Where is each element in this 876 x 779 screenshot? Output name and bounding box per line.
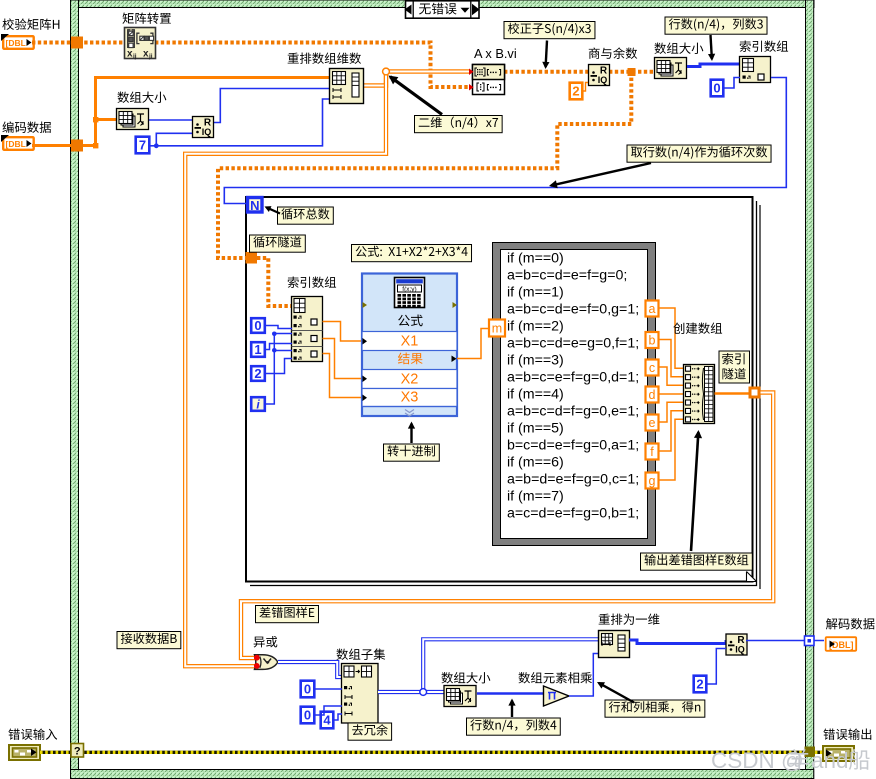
- wire 编码数据 1D to tunnel and up to 数组大小 and 重排数组维数: [32, 78, 330, 147]
- wire quotient3 to 解码数据 out: [746, 640, 824, 642]
- constant 2 (bottom): [694, 676, 707, 693]
- case structure 无错误 - top border: [71, 0, 815, 8]
- label 错误输入: [8, 728, 57, 739]
- tunnel ? error in: [71, 744, 84, 758]
- svg-text:if (m==7): if (m==7): [507, 489, 564, 505]
- constant 0 (top right): [711, 80, 724, 97]
- svg-text:a=c=d=e=f=g=0,b=1;: a=c=d=e=f=g=0,b=1;: [507, 506, 639, 522]
- svg-text:m: m: [492, 322, 502, 336]
- case structure - bottom border: [71, 770, 814, 779]
- junction square on dashed wire: [628, 68, 636, 76]
- label 差错图样E: [256, 606, 319, 623]
- node A x B.vi: [469, 65, 505, 95]
- wire 0 to 索引数组2: [724, 78, 740, 89]
- label 行数(n/4)，列数3: [665, 17, 767, 61]
- wire 数组大小3 to 数组元素相乘: [477, 692, 543, 695]
- wire dashed inside loop to 索引数组: [257, 258, 292, 306]
- formula node frame: [493, 243, 656, 546]
- case structure - right border: [806, 0, 814, 779]
- svg-text:if (m==6): if (m==6): [507, 455, 564, 471]
- svg-text:a=b=c=d=e=f=0,g=1;: a=b=c=d=e=f=0,g=1;: [507, 302, 639, 318]
- wire 数组子集 out 2D blue to junction and 数组大小3 and up to 重排为一维: [378, 639, 598, 695]
- svg-text:[DBL: [DBL: [6, 139, 26, 149]
- svg-text:1: 1: [254, 342, 261, 357]
- svg-text:d: d: [649, 388, 656, 402]
- label 去冗余: [348, 723, 392, 740]
- label 创建数组: [673, 322, 722, 333]
- constant 7: [136, 137, 150, 154]
- label 校正子S(n/4)x3: [504, 22, 595, 70]
- svg-text:b: b: [649, 334, 656, 348]
- junction circle on B wire: [383, 68, 390, 75]
- label 解码数据: [826, 618, 875, 629]
- wire 创建数组 to 索引隧道: [715, 392, 750, 395]
- svg-text:IQ: IQ: [202, 127, 212, 137]
- output tab a on formula frame: [646, 301, 659, 317]
- wire 异或 out 2D blue to 数组子集: [278, 662, 342, 677]
- node 索引数组 2 (Index Array): [740, 57, 771, 83]
- wire 数组大小1 to 商与余数1: [149, 120, 193, 122]
- svg-text:if (m==3): if (m==3): [507, 353, 564, 369]
- label 重排为一维: [599, 614, 660, 625]
- constant 4 (subset): [321, 712, 334, 729]
- label 行数n/4，列数4: [467, 699, 561, 736]
- constant 2 (orange): [570, 83, 588, 100]
- svg-text:e: e: [649, 416, 656, 430]
- terminal N (loop count): [248, 198, 263, 214]
- label 校验矩阵H: [2, 18, 59, 30]
- label 索引隧道: [719, 351, 750, 383]
- wires 索引数组 outputs to 公式 inputs: [323, 322, 363, 398]
- watermark CSDN: [711, 748, 870, 773]
- label 输出差错图样E数组: [641, 430, 753, 570]
- label 错误输出: [823, 728, 871, 739]
- svg-text:CSDN @: CSDN @: [711, 748, 804, 773]
- svg-text:ij: ij: [133, 53, 137, 60]
- wire error through case: [40, 751, 824, 754]
- tunnel H on case border: [71, 37, 83, 49]
- wires subset constants: [315, 689, 343, 720]
- wire syndrome dashed: quotient2 out to junction to 数组大小2: [609, 70, 655, 74]
- label 公式: X1+X2*2+X3*4: [352, 245, 472, 262]
- node 数组大小 3 (Array Size): [444, 686, 476, 707]
- label 数组大小 (2): [654, 42, 703, 53]
- constant 2 (loop): [251, 366, 265, 381]
- svg-text:7: 7: [139, 138, 146, 153]
- label 矩阵转置: [122, 13, 170, 24]
- for loop border: [246, 197, 760, 589]
- output tab g on formula frame: [646, 473, 659, 489]
- svg-text:2: 2: [254, 366, 261, 381]
- node 商与余数 2 (Quotient & Remainder): [589, 65, 610, 86]
- svg-text:f(x;y): f(x;y): [402, 286, 416, 293]
- label 重排数组维数: [288, 52, 361, 63]
- svg-text:IQ: IQ: [598, 75, 608, 85]
- for loop dog-ear corner: [747, 572, 757, 582]
- svg-text:f: f: [650, 445, 654, 459]
- svg-text:0: 0: [304, 682, 311, 697]
- label 商与余数: [589, 47, 637, 59]
- label 异或: [254, 636, 278, 647]
- svg-text:if (m==1): if (m==1): [507, 285, 564, 301]
- label 索引数组 (1): [288, 276, 336, 287]
- label 数组大小 (1): [117, 91, 166, 102]
- wire quotient1 to 重排数组维数 dim1: [214, 89, 330, 123]
- terminal 错误输出 error cluster: [823, 746, 854, 761]
- input tab m on formula frame: [489, 320, 505, 337]
- svg-text:if (m==4): if (m==4): [507, 387, 564, 403]
- label 循环隧道: [250, 235, 306, 252]
- wire 2 to 商与余数3: [708, 649, 727, 685]
- wire 索引数组2 out down-left to N terminal: [224, 78, 786, 204]
- label 取行数(n/4)作为循环次数: [549, 145, 771, 188]
- svg-text:if (m==5): if (m==5): [507, 421, 564, 437]
- svg-text:X1: X1: [401, 334, 419, 350]
- wire 2D B array down-branch to 异或: [185, 72, 386, 667]
- junction dots on 编码数据 wire: [93, 117, 98, 148]
- label A x B.vi: [474, 46, 517, 61]
- label 数组元素相乘: [518, 672, 591, 683]
- wire 重排为一维 out 1D to 商与余数3: [629, 640, 726, 644]
- svg-text:IQ: IQ: [735, 645, 745, 655]
- svg-text:2: 2: [572, 84, 579, 99]
- node 矩阵转置 (Transpose Matrix): [125, 28, 156, 61]
- label 循环总数: [265, 206, 334, 224]
- tunnel B on case border: [71, 140, 83, 152]
- svg-text:X3: X3: [401, 390, 419, 406]
- node 重排数组维数 (Reshape Array): [330, 69, 364, 104]
- terminal 编码数据 [DBL]: [1, 135, 34, 150]
- output tab c on formula frame: [646, 360, 659, 376]
- svg-text:a=b=d=e=f=g=0,c=1;: a=b=d=e=f=g=0,c=1;: [507, 472, 639, 488]
- node 商与余数 3 (Quotient & Remainder): [726, 634, 747, 655]
- svg-text:X2: X2: [401, 372, 419, 388]
- node 数组元素相乘 (Multiply Array Elements): [544, 686, 570, 706]
- node 数组大小 2 (Array Size): [655, 58, 687, 79]
- label 编码数据: [2, 121, 51, 133]
- wire E 2D from 索引隧道 around loop to 异或: [241, 393, 773, 659]
- constant 0 (loop): [251, 318, 265, 333]
- wire H matrix dashed: terminal to 矩阵转置 to tunnel to A x B input2: [32, 43, 469, 88]
- svg-text:0: 0: [713, 81, 720, 96]
- node 异或 (XOR): [254, 655, 278, 670]
- svg-text:and: and: [811, 748, 849, 773]
- output tab b on formula frame: [646, 332, 659, 348]
- tunnel error out: [805, 747, 816, 758]
- label 二维（n/4）x7: [389, 76, 503, 133]
- label 索引数组 (2): [740, 40, 788, 51]
- terminal 校验矩阵H [DBL]: [1, 34, 34, 49]
- svg-text:a=b=c=d=f=g=0,e=1;: a=b=c=d=f=g=0,e=1;: [507, 404, 639, 420]
- wire 2D B array: 重排数组维数 out to junction to A x B input1: [363, 72, 469, 86]
- wire 7 to divisor and long to 重排数组维数: [150, 99, 330, 148]
- wires a-g to 创建数组: [659, 308, 685, 480]
- loop tunnel 循环隧道 square: [246, 252, 258, 264]
- wire 数组大小2 to 索引数组2 1D blue: [687, 64, 740, 67]
- constant 1 (loop): [251, 342, 265, 357]
- case structure - left border: [71, 0, 79, 779]
- svg-text:b=c=d=e=f=g=0,a=1;: b=c=d=e=f=g=0,a=1;: [507, 438, 639, 454]
- node 数组大小 1 (Array Size): [117, 109, 149, 130]
- wire syndrome dashed down path to for-loop tunnel: [218, 72, 631, 258]
- svg-text:A x B.vi: A x B.vi: [474, 46, 517, 61]
- svg-text:g: g: [649, 474, 656, 488]
- constant 0 (subset a): [301, 681, 315, 698]
- output tab e on formula frame: [646, 415, 659, 431]
- node 公式 (Formula Express VI): [362, 274, 457, 417]
- svg-text:ji: ji: [148, 53, 153, 60]
- wire syndrome dashed: A x B out to 商与余数2: [504, 70, 588, 74]
- formula node code text: [507, 251, 639, 522]
- label 转十进制: [384, 422, 440, 462]
- tunnel 索引隧道 (auto-index): [749, 387, 761, 399]
- node 索引数组 1 (Index Array expanded): [292, 297, 323, 362]
- svg-text:0: 0: [254, 318, 261, 333]
- node 创建数组 (Build Array): [684, 365, 715, 424]
- svg-text:c: c: [649, 361, 655, 375]
- wire 结果 to m: [457, 329, 489, 359]
- wires loop constants to 索引数组: [266, 326, 292, 405]
- svg-text:N: N: [250, 198, 259, 213]
- terminal i (loop iteration): [251, 397, 265, 411]
- svg-text:a=b=c=e=f=g=0,d=1;: a=b=c=e=f=g=0,d=1;: [507, 370, 639, 386]
- svg-text:a: a: [649, 302, 656, 316]
- terminal 解码数据 [DBL] indicator: [826, 637, 857, 651]
- wire 数组元素相乘 to 重排为一维 dim: [569, 654, 598, 697]
- label 数组大小 (3): [441, 672, 490, 683]
- node 数组子集 (Array Subset): [342, 664, 379, 724]
- constant 0 (subset b): [301, 707, 315, 724]
- output tab d on formula frame: [646, 387, 659, 403]
- svg-text:2: 2: [696, 677, 703, 692]
- label 接收数据B: [117, 632, 181, 649]
- svg-text:?: ?: [74, 746, 81, 758]
- output tab f on formula frame: [646, 444, 659, 460]
- tunnel 解码数据 on case border: [805, 636, 815, 646]
- node 重排为一维 (Reshape Array 1D): [599, 631, 630, 658]
- node 商与余数 1 (Quotient & Remainder): [193, 117, 214, 138]
- terminal 错误输入 error cluster: [9, 745, 40, 760]
- label 行和列相乘，得n: [597, 682, 705, 717]
- svg-text:[DBL: [DBL: [6, 38, 26, 48]
- svg-text:0: 0: [304, 708, 311, 723]
- case selector label 无错误: [405, 1, 480, 18]
- svg-text:if (m==2): if (m==2): [507, 319, 564, 335]
- svg-text:if (m==0): if (m==0): [507, 251, 564, 267]
- svg-text:a=b=c=d=e=f=g=0;: a=b=c=d=e=f=g=0;: [507, 268, 627, 284]
- svg-text:a=b=c=d=e=g=0,f=1;: a=b=c=d=e=g=0,f=1;: [507, 336, 639, 352]
- label 数组子集: [336, 648, 385, 659]
